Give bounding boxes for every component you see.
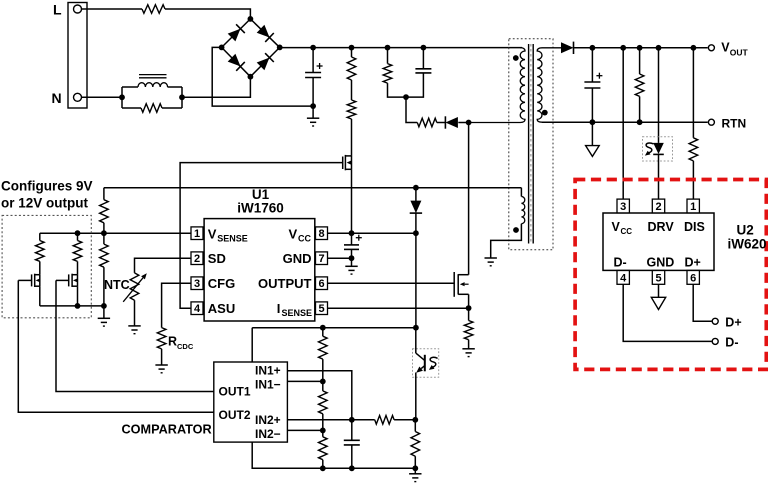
node IN2- junction xyxy=(320,428,326,434)
sense ground GND9 xyxy=(462,348,474,350)
divider resistor R10 xyxy=(103,233,105,244)
node filter left xyxy=(119,94,125,100)
svg-text:2: 2 xyxy=(655,201,661,213)
U1 pin 4 box xyxy=(191,302,203,315)
svg-text:RTN: RTN xyxy=(722,116,747,130)
node bridge left xyxy=(219,45,225,51)
node IN1- junction xyxy=(320,379,326,385)
U1 pin 1 box xyxy=(191,227,203,240)
svg-text:I: I xyxy=(277,301,281,316)
wire IN1- xyxy=(287,380,322,382)
wire DC bus xyxy=(280,47,522,49)
svg-text:CDC: CDC xyxy=(177,342,194,351)
node snubber C xyxy=(421,45,427,51)
svg-text:IN2−: IN2− xyxy=(255,427,281,441)
wire diode to primary xyxy=(458,122,470,124)
wire RTN rail xyxy=(542,121,708,123)
secondary ground GND3 xyxy=(586,146,600,157)
wire config bottom rail xyxy=(40,305,104,307)
clamp diode D5 xyxy=(445,117,458,128)
svg-text:7: 7 xyxy=(318,253,324,265)
configure option box xyxy=(2,215,91,317)
node filter right xyxy=(179,94,185,100)
wire IN2+ xyxy=(287,419,374,421)
U1 pin 2 box xyxy=(191,252,203,265)
svg-text:ASU: ASU xyxy=(208,301,235,316)
svg-text:CC: CC xyxy=(621,227,633,236)
startup MOSFET Q1 xyxy=(342,157,344,170)
divider resistor R15 xyxy=(322,381,324,391)
VCC charge diode D8 xyxy=(415,188,417,202)
terminal RTN xyxy=(708,119,714,125)
U2 boundary box xyxy=(575,180,766,370)
RCDC resistor xyxy=(157,328,166,349)
transformer core xyxy=(528,44,530,244)
snubber resistor R5 xyxy=(387,48,389,64)
output resistor R7 xyxy=(639,48,641,74)
wire CFG to RCDC xyxy=(162,283,191,327)
optocoupler transistor box xyxy=(413,349,439,378)
wire filter to bridge bottom xyxy=(182,77,250,98)
divider resistor R9 xyxy=(103,188,105,200)
wire comparator ground stub xyxy=(252,442,415,468)
node VSENSE divider xyxy=(101,230,107,236)
node clamp junction xyxy=(466,120,472,126)
svg-text:D+: D+ xyxy=(725,315,741,329)
node U2 vcc line xyxy=(620,45,626,51)
output capacitor C3 xyxy=(591,48,593,82)
svg-text:2: 2 xyxy=(194,253,200,265)
node bottom rail right xyxy=(412,465,418,471)
filter damping resistor R2 xyxy=(141,104,162,113)
clamp resistor R6 xyxy=(417,118,437,127)
wire OUTPUT to Q2 gate xyxy=(328,282,455,284)
node chain bottom xyxy=(320,465,326,471)
wire Vout to opto LED xyxy=(658,48,660,143)
U2 pin 6 box xyxy=(687,271,699,285)
svg-text:V: V xyxy=(289,227,298,242)
emitter resistor R18 xyxy=(414,420,416,432)
M2 drain resistor R12 xyxy=(77,233,79,240)
svg-text:OUTPUT: OUTPUT xyxy=(258,276,312,291)
svg-text:1: 1 xyxy=(194,228,200,240)
wire Vout rail xyxy=(574,47,708,49)
node M2 resistor top xyxy=(75,230,81,236)
svg-text:3: 3 xyxy=(620,201,626,213)
svg-text:4: 4 xyxy=(620,272,627,284)
svg-text:5: 5 xyxy=(318,303,324,315)
wire LED to U2 pin2 xyxy=(658,154,660,199)
secondary ground stem xyxy=(591,122,593,145)
svg-text:8: 8 xyxy=(318,228,324,240)
U1 pin 3 box xyxy=(191,277,203,290)
output diode D6 xyxy=(561,42,574,53)
node bulk cap xyxy=(310,45,316,51)
node U1 GND xyxy=(349,255,355,261)
terminal VOUT xyxy=(708,45,714,51)
bridge diode D1 xyxy=(228,29,241,42)
svg-text:GND: GND xyxy=(647,256,675,270)
node RTN resistor xyxy=(637,119,643,125)
node out resistor xyxy=(637,45,643,51)
bridge edge BL xyxy=(222,47,251,76)
svg-text:4: 4 xyxy=(194,303,201,315)
svg-text:iW1760: iW1760 xyxy=(237,201,284,216)
svg-text:R: R xyxy=(168,335,177,349)
svg-text:V: V xyxy=(612,220,621,234)
transformer secondary winding xyxy=(537,48,561,122)
node out cap xyxy=(590,45,596,51)
node bridge right xyxy=(277,45,283,51)
node startup chain xyxy=(349,45,355,51)
bridge edge TL xyxy=(222,19,251,48)
VCC capacitor C4 xyxy=(351,233,353,245)
wire U2 D+ out xyxy=(693,284,711,321)
transformer primary winding xyxy=(469,48,525,123)
series resistor R17 xyxy=(375,416,394,425)
svg-text:D+: D+ xyxy=(685,256,701,270)
divider resistor R16 xyxy=(322,430,324,436)
terminal D+ xyxy=(712,318,718,324)
svg-text:U2: U2 xyxy=(737,223,754,238)
primary ground GND1 xyxy=(312,106,314,118)
node opto led line xyxy=(656,45,662,51)
svg-text:NTC: NTC xyxy=(104,278,130,292)
U1 pin 6 box xyxy=(316,277,328,290)
svg-text:OUT: OUT xyxy=(730,47,749,57)
wire IN1+ xyxy=(287,371,351,420)
wire IN2- xyxy=(287,429,322,431)
NTC ground GND7 xyxy=(128,325,140,327)
wire snubber to clamp xyxy=(406,97,417,122)
opto light squiggle xyxy=(430,357,437,367)
svg-text:OUT2: OUT2 xyxy=(219,408,251,422)
wire fuse to bridge top xyxy=(165,9,250,19)
wire Vout to DIS resistor xyxy=(692,48,694,138)
U1 pin 8 box xyxy=(316,227,328,240)
polarity + C1 xyxy=(317,65,323,67)
svg-text:SD: SD xyxy=(208,251,226,266)
wire U2 D- out xyxy=(623,284,711,341)
node IN2+ junction xyxy=(349,417,355,423)
node out cap bottom xyxy=(590,119,596,125)
wire M1 source xyxy=(39,286,41,306)
filter capacitor C5 xyxy=(351,420,353,441)
node aux line diode xyxy=(413,185,419,191)
node VCC diode bottom xyxy=(413,230,419,236)
svg-text:IN2+: IN2+ xyxy=(255,413,281,427)
wire clamp junction to Q2 drain xyxy=(468,123,470,275)
svg-text:iW620: iW620 xyxy=(728,237,767,252)
U2 pin 4 box xyxy=(617,271,629,285)
wire aux sense line xyxy=(104,187,522,189)
svg-text:COMPARATOR: COMPARATOR xyxy=(122,423,212,437)
primary phase dot xyxy=(513,55,519,61)
node bridge top xyxy=(248,16,254,22)
bridge diode D2 xyxy=(257,25,270,38)
filter inductor L1 xyxy=(138,83,168,87)
NTC arrow xyxy=(123,278,143,302)
U1 ground GND5 xyxy=(351,258,353,266)
svg-text:1: 1 xyxy=(690,201,696,213)
input connector J1 xyxy=(68,3,87,109)
svg-text:N: N xyxy=(52,90,62,106)
node return rail xyxy=(310,103,316,109)
terminal D- xyxy=(712,338,718,344)
optocoupler LED D7 xyxy=(653,143,664,154)
wire comparator top rail xyxy=(252,327,416,329)
bridge edge TR xyxy=(250,19,279,48)
svg-text:V: V xyxy=(208,227,217,242)
bulk capacitor C1 xyxy=(312,48,314,73)
svg-text:D-: D- xyxy=(614,256,627,270)
U2 pin 5 box xyxy=(652,271,664,285)
node bridge bottom xyxy=(248,74,254,80)
wire M2 source xyxy=(77,286,79,306)
svg-text:Configures 9V: Configures 9V xyxy=(1,179,93,194)
wire clamp R to diode xyxy=(437,122,445,124)
node filter cap bottom xyxy=(349,465,355,471)
svg-text:or 12V output: or 12V output xyxy=(1,196,89,211)
filter inductor core xyxy=(139,74,167,76)
U2 ground GND4 xyxy=(651,297,665,309)
aux phase dot xyxy=(513,227,519,233)
node ISENSE xyxy=(466,305,472,311)
svg-text:DIS: DIS xyxy=(684,220,705,234)
svg-text:DRV: DRV xyxy=(648,220,675,234)
svg-text:IN1+: IN1+ xyxy=(255,364,281,378)
U1 pin 7 box xyxy=(316,252,328,265)
svg-text:D-: D- xyxy=(725,335,738,349)
startup resistor R3 xyxy=(351,48,353,57)
node snubber R xyxy=(385,45,391,51)
wire SD to NTC xyxy=(135,258,192,273)
optocoupler transistor Q3 xyxy=(415,328,417,353)
wire pin7 GND xyxy=(328,257,352,259)
wire N to filter xyxy=(81,96,122,98)
svg-text:GND: GND xyxy=(283,251,312,266)
MOSFET M2 xyxy=(68,274,70,286)
node divider bottom xyxy=(101,303,107,309)
M1 drain resistor R11 xyxy=(39,233,41,240)
U2 pin 2 box xyxy=(652,199,664,213)
transformer aux winding xyxy=(520,188,522,197)
svg-text:3: 3 xyxy=(194,278,200,290)
wire Q1 source to VCC node xyxy=(351,169,353,233)
wire Q2 source xyxy=(468,294,470,308)
svg-text:IN1−: IN1− xyxy=(255,378,281,392)
comparator ground GND10 xyxy=(414,468,416,474)
node snubber junction xyxy=(403,94,409,100)
svg-text:6: 6 xyxy=(318,278,324,290)
DIS resistor R8 xyxy=(689,138,698,161)
MOSFET M1 xyxy=(31,274,33,286)
polarity + C3 xyxy=(596,75,602,77)
U1 body xyxy=(204,219,315,321)
wire L to fuse xyxy=(81,8,142,10)
NTC thermistor RT1 xyxy=(130,273,139,300)
U2 pin 1 box xyxy=(687,199,699,213)
RCDC ground GND8 xyxy=(155,364,167,366)
optocoupler LED box xyxy=(643,137,673,161)
svg-text:5: 5 xyxy=(655,272,661,284)
aux ground GND2 xyxy=(485,257,497,259)
MOSFET Q2 xyxy=(453,272,455,297)
bridge diode D4 xyxy=(257,58,270,71)
wire comparator supply xyxy=(251,328,253,362)
U1 pin 5 box xyxy=(316,302,328,315)
polarity + C4 xyxy=(356,237,362,239)
startup resistor R4 xyxy=(351,80,353,100)
bridge diode D3 xyxy=(228,54,241,67)
fuse resistor RF1 xyxy=(142,5,165,14)
node M2 source xyxy=(75,303,81,309)
secondary phase dot xyxy=(542,110,548,116)
svg-text:CC: CC xyxy=(298,233,311,243)
terminal N xyxy=(74,93,82,101)
U2 GND stem xyxy=(658,284,660,297)
node DIS resistor line xyxy=(691,45,697,51)
bridge edge BR xyxy=(250,47,279,76)
wire Vout to U2 pin3 xyxy=(622,48,624,199)
svg-text:SENSE: SENSE xyxy=(282,308,313,318)
node comparator rail right xyxy=(413,325,419,331)
wire aux to ground xyxy=(491,224,522,258)
wire bridge left to return rail xyxy=(212,47,313,106)
wire M1 gate riser xyxy=(18,280,214,412)
wire VCC to comparator rail xyxy=(415,233,417,328)
EMI filter frame xyxy=(121,87,123,108)
transformer shield box xyxy=(509,39,553,250)
wire VCC node to diode xyxy=(352,232,416,234)
svg-text:OUT1: OUT1 xyxy=(219,385,251,399)
node opto emitter junction xyxy=(412,417,418,423)
wire VSENSE line xyxy=(40,232,191,234)
svg-text:6: 6 xyxy=(690,272,696,284)
wire M2 gate riser xyxy=(56,280,214,391)
node U1 VCC xyxy=(349,230,355,236)
pullup resistor R14 xyxy=(322,328,324,337)
node pullup chain top xyxy=(320,325,326,331)
svg-text:SENSE: SENSE xyxy=(217,233,248,243)
snubber capacitor C2 xyxy=(422,48,424,69)
wire pin5 ISENSE xyxy=(328,307,469,309)
wire pin8 to VCC node xyxy=(328,232,352,234)
U2 pin 3 box xyxy=(617,199,629,213)
svg-text:L: L xyxy=(53,2,62,18)
wire ASU to Q1 gate xyxy=(180,163,343,309)
comparator body xyxy=(214,362,288,442)
LED light squiggle xyxy=(646,143,653,153)
sense resistor R13 xyxy=(468,308,470,320)
divider ground GND6 xyxy=(103,306,105,318)
U2 body xyxy=(603,213,714,270)
svg-text:CFG: CFG xyxy=(208,276,235,291)
terminal L xyxy=(74,5,82,13)
